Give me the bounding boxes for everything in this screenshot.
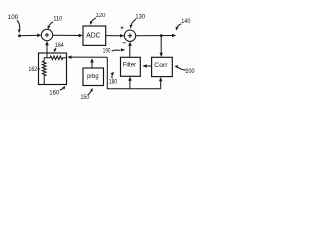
svg-text:140: 140: [181, 19, 191, 25]
svg-text:110: 110: [53, 17, 62, 23]
svg-text:180: 180: [109, 79, 118, 85]
wire prbg up to bus: [90, 58, 94, 68]
svg-text:150: 150: [81, 95, 90, 101]
svg-text:190: 190: [103, 48, 111, 54]
wire prbg to network 160: [67, 55, 107, 59]
block Corr 200: [152, 57, 173, 76]
wire bus to Filter input: [128, 77, 132, 89]
svg-text:Corr: Corr: [154, 62, 168, 69]
svg-text:prbg: prbg: [87, 73, 99, 80]
op-amp summing junction 130: [124, 30, 135, 41]
label 140: [176, 19, 191, 31]
label 164: [54, 43, 64, 52]
resistor R164 horizontal: [44, 56, 67, 60]
wire prbg bus down and across: [107, 57, 161, 89]
node minus sign at 130 bottom input: [122, 40, 126, 47]
wire network 160 to summer 110: [45, 41, 49, 58]
label 150: [81, 88, 93, 101]
label 200: [174, 65, 195, 75]
label 130: [130, 14, 146, 28]
node input dot 100: [18, 34, 21, 37]
svg-text:Filter: Filter: [123, 62, 137, 69]
block prbg 150: [83, 68, 104, 86]
wire input to summer 110: [20, 34, 42, 38]
svg-text:−: −: [122, 40, 126, 47]
svg-text:200: 200: [186, 69, 196, 75]
block resistor network 160: [39, 53, 67, 85]
svg-text:120: 120: [95, 13, 106, 19]
label 100: [8, 15, 21, 33]
wire junction to Corr input: [160, 36, 164, 57]
label 110: [48, 17, 63, 30]
label 180: [109, 72, 118, 86]
label 162: [28, 67, 40, 73]
block Filter 180: [121, 57, 141, 76]
wire ADC to summer 130: [106, 34, 125, 38]
wire summer 130 to output 140: [136, 34, 177, 37]
svg-text:ADC: ADC: [86, 30, 100, 39]
node junction dot to Corr: [160, 34, 163, 37]
node plus sign at 130 input: [120, 25, 124, 32]
svg-text:162: 162: [28, 67, 37, 73]
wire Corr to Filter: [142, 64, 151, 68]
svg-text:130: 130: [135, 14, 146, 20]
svg-text:+: +: [120, 25, 124, 32]
wire bus to Corr input: [159, 77, 162, 89]
block ADC 120: [83, 26, 106, 45]
label 120: [90, 13, 106, 25]
wire summer 110 to ADC: [53, 34, 83, 37]
label 160: [49, 86, 65, 97]
resistor R162 vertical: [42, 58, 46, 85]
wire Filter to summer 130: [128, 42, 132, 58]
label 190: [103, 48, 125, 54]
svg-text:160: 160: [49, 90, 60, 96]
op-amp summing junction 110: [41, 29, 52, 40]
